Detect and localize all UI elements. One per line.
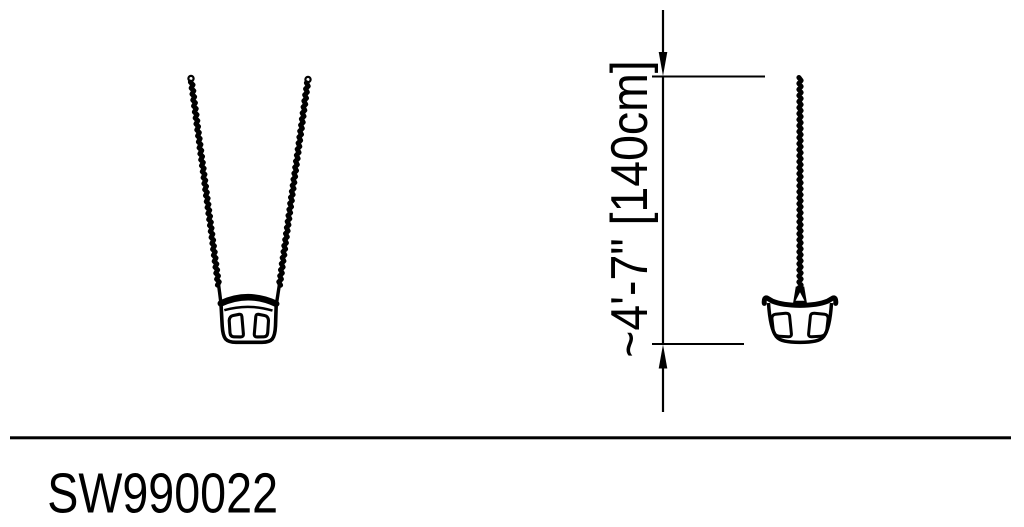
- svg-text:SW990022: SW990022: [47, 461, 278, 522]
- svg-text:~4'-7" [140cm]: ~4'-7" [140cm]: [601, 60, 659, 357]
